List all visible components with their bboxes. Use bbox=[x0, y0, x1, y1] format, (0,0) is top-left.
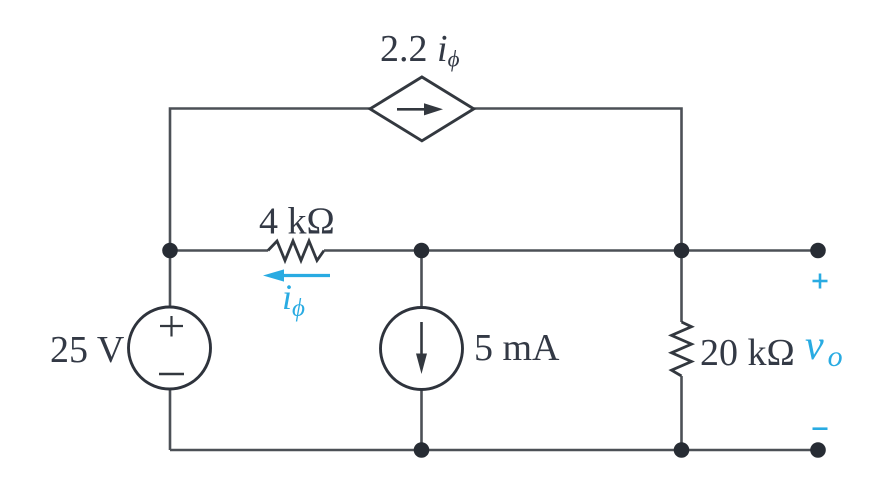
svg-text:25 V: 25 V bbox=[50, 329, 125, 371]
voltage source V1 25V circle bbox=[129, 307, 211, 389]
resistor R2 20 kOhm bbox=[672, 322, 692, 376]
svg-text:5 mA: 5 mA bbox=[474, 327, 560, 369]
terminal dot top right bbox=[810, 243, 826, 259]
current source arrow bbox=[416, 322, 427, 374]
label vo plus bbox=[813, 274, 828, 289]
wire 5mA source bottom lead bbox=[420, 390, 423, 451]
node e junction dot bbox=[674, 442, 690, 458]
label vo minus bbox=[813, 427, 828, 430]
voltage source plus sign bbox=[160, 316, 183, 337]
wire left source bottom lead bbox=[169, 389, 172, 450]
wire 5mA source top lead bbox=[420, 251, 423, 308]
svg-text:vo: vo bbox=[805, 323, 843, 373]
node c junction dot bbox=[674, 243, 690, 259]
dependent current source U1 diamond bbox=[370, 77, 474, 141]
svg-text:4 kΩ: 4 kΩ bbox=[259, 201, 335, 243]
wire middle rail left bbox=[170, 249, 268, 252]
current source I1 5mA circle bbox=[381, 308, 463, 390]
wire middle rail to right terminal bbox=[682, 249, 819, 252]
node d junction dot bbox=[414, 442, 430, 458]
current arrow i-phi bbox=[263, 269, 330, 281]
wire top-left rail bbox=[170, 109, 370, 251]
voltage source minus sign bbox=[159, 373, 184, 375]
node a junction dot bbox=[162, 243, 178, 259]
svg-text:20 kΩ: 20 kΩ bbox=[700, 332, 795, 374]
dependent source arrow bbox=[397, 103, 443, 115]
wire left source top lead bbox=[169, 251, 172, 308]
wire bottom rail bbox=[170, 449, 818, 452]
svg-text:2.2 iϕ: 2.2 iϕ bbox=[380, 28, 460, 72]
wire middle rail center bbox=[324, 249, 682, 252]
resistor R1 4 kOhm bbox=[268, 241, 324, 261]
svg-text:iϕ: iϕ bbox=[282, 277, 305, 322]
wire top-right rail bbox=[474, 109, 682, 251]
terminal dot bottom right bbox=[810, 442, 826, 458]
wire right resistor top lead bbox=[680, 251, 683, 323]
wire right resistor bottom lead bbox=[680, 376, 683, 450]
node b junction dot bbox=[414, 243, 430, 259]
